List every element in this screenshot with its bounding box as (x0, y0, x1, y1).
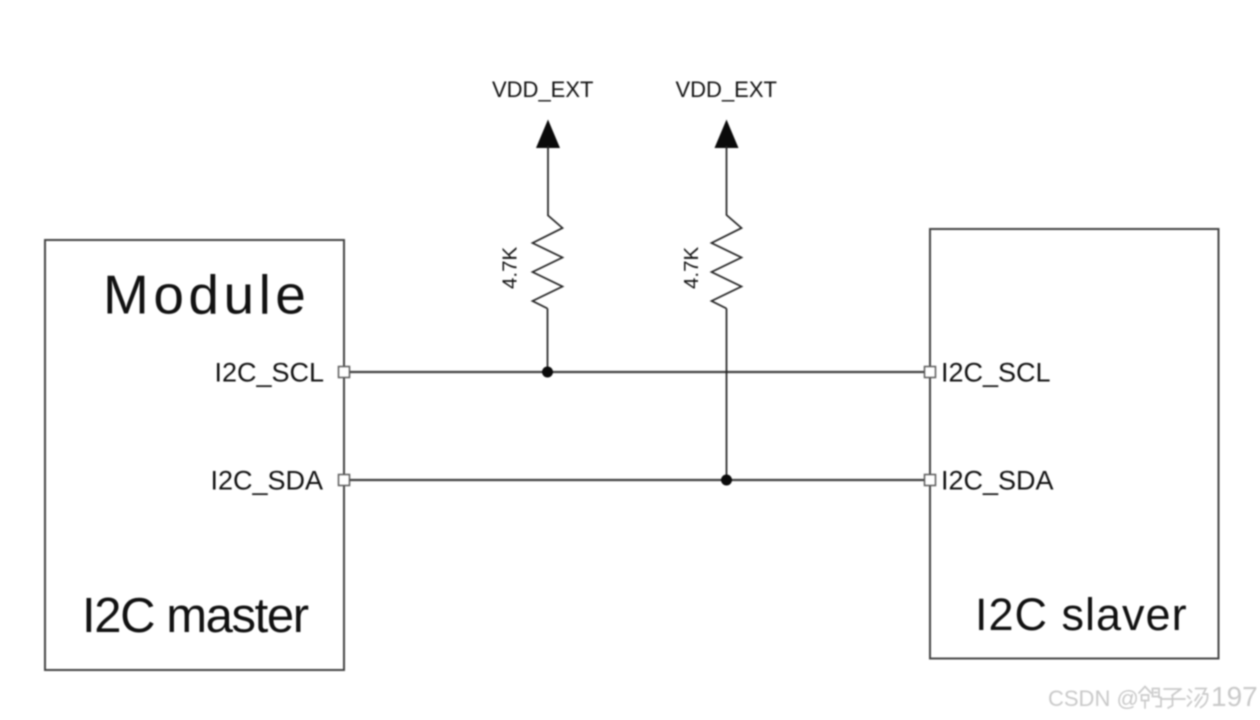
svg-text:VDD_EXT: VDD_EXT (492, 77, 593, 102)
wire R2 to SDA net (crosses SCL) (726, 309, 728, 481)
watermark CSDN @鸽子汤197 (1048, 681, 1258, 712)
VDD_EXT power arrow (R1) (536, 120, 560, 149)
resistor R2 4.7K (712, 215, 742, 309)
wire R1 to SCL net (547, 309, 549, 373)
svg-text:Module: Module (103, 264, 310, 326)
slave box U2 (I2C slaver) (930, 229, 1219, 659)
svg-text:CSDN @: CSDN @ (1048, 686, 1139, 711)
svg-text:197: 197 (1211, 681, 1258, 712)
svg-text:I2C_SCL: I2C_SCL (214, 358, 324, 388)
svg-text:4.7K: 4.7K (680, 247, 703, 289)
pin square I2C_SDA (slave) (925, 475, 936, 486)
svg-text:VDD_EXT: VDD_EXT (676, 77, 777, 102)
junction dot R1/SCL (542, 367, 553, 378)
module box U1 (I2C master) (45, 240, 344, 670)
svg-text:I2C_SCL: I2C_SCL (941, 358, 1051, 388)
resistor R1 4.7K (533, 215, 563, 309)
VDD_EXT power arrow (R2) (715, 120, 739, 149)
pin square I2C_SCL (slave) (925, 367, 936, 378)
wire net I2C_SDA (350, 479, 924, 481)
junction dot R2/SDA (721, 475, 732, 486)
svg-text:4.7K: 4.7K (499, 247, 522, 289)
pin square I2C_SCL (master) (339, 367, 350, 378)
wire net I2C_SCL (350, 371, 924, 373)
pin square I2C_SDA (master) (339, 475, 350, 486)
wire VDD stem (R1) (547, 146, 549, 216)
svg-text:I2C slaver: I2C slaver (975, 589, 1188, 640)
wire VDD stem (R2) (726, 146, 728, 216)
svg-text:I2C_SDA: I2C_SDA (941, 466, 1054, 496)
svg-text:I2C_SDA: I2C_SDA (210, 466, 323, 496)
svg-text:I2C master: I2C master (82, 589, 309, 643)
